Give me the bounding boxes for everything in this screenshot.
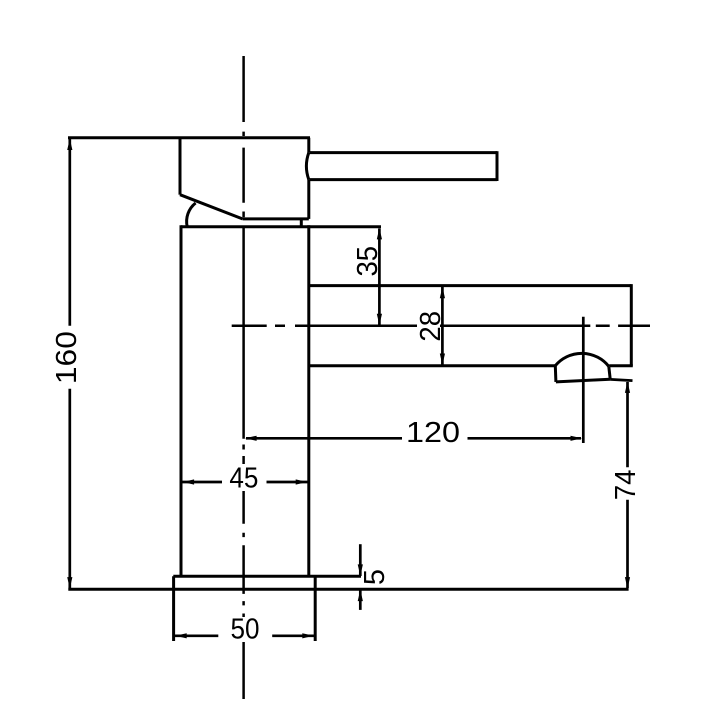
handle pivot arc <box>187 203 196 227</box>
arrow 74 down <box>625 577 630 589</box>
dimension 5 line upper <box>359 544 362 576</box>
aerator bottom edge <box>556 379 610 382</box>
text mask 28 <box>417 312 440 341</box>
aerator dome arc <box>555 353 609 366</box>
body top edge + 35 extension line <box>181 225 381 228</box>
arrow 50 right <box>302 633 314 638</box>
arrow 160 down <box>67 577 72 589</box>
dimension 28 line <box>441 287 444 365</box>
svg-text:45: 45 <box>229 463 258 495</box>
arrow 120 left <box>245 436 257 441</box>
text mask 45 <box>228 464 260 491</box>
svg-text:160: 160 <box>51 331 83 384</box>
arrow 50 left <box>175 633 187 638</box>
collar step <box>300 219 303 227</box>
dimension 74 line upper <box>626 382 629 467</box>
dimension 5 line lower <box>359 590 362 610</box>
spout bottom edge left part <box>309 364 556 367</box>
handle bottom edge <box>243 217 309 220</box>
base plate bottom line + 160 and 74 extension line <box>68 588 628 591</box>
base plate right edge + 50 extension line <box>314 576 317 641</box>
vertical centerline dash-dot <box>242 56 245 699</box>
svg-text:74: 74 <box>610 470 642 501</box>
spout right edge <box>630 284 633 366</box>
arrow 35 up <box>377 228 382 240</box>
dimension 120 line left <box>246 437 402 440</box>
handle right edge upper <box>307 138 310 153</box>
svg-text:5: 5 <box>359 569 391 585</box>
horizontal centerline dash-dot <box>232 324 650 327</box>
spout bottom edge right part <box>609 364 633 367</box>
handle diagonal edge <box>180 195 243 219</box>
dimension 120 line right <box>468 437 582 440</box>
arrow 45 left <box>183 479 195 484</box>
lever right edge <box>496 151 499 181</box>
body right edge <box>307 225 310 576</box>
lever left cap arc <box>306 153 308 180</box>
arrow 120 right <box>571 436 583 441</box>
dimension 45 line right <box>267 481 308 484</box>
svg-text:28: 28 <box>415 311 447 342</box>
arrow 28 up <box>440 287 445 299</box>
handle right edge lower <box>307 180 310 219</box>
dimension 35 line <box>378 229 381 325</box>
dimension 74 line lower <box>626 500 629 588</box>
svg-text:120: 120 <box>406 417 460 449</box>
body left edge <box>180 225 183 576</box>
text mask 50 <box>229 617 261 642</box>
aerator axis extension line for 120 <box>582 317 585 443</box>
dimension 50 line right <box>272 634 314 637</box>
dimension 50 line left <box>175 634 218 637</box>
arrow 74 up <box>625 381 630 393</box>
handle top edge + 160 extension line <box>68 136 310 139</box>
lever top edge <box>310 151 498 154</box>
spout top edge <box>309 284 632 287</box>
arrow 5 up (below plate) <box>358 590 363 602</box>
dimension 160 line lower <box>68 389 71 588</box>
lever bottom edge <box>310 178 498 181</box>
aerator bottom extension line for 74 <box>610 379 632 380</box>
arrow 45 right <box>296 479 308 484</box>
dimension 45 line left <box>183 481 223 484</box>
base plate left edge + 50 extension line <box>172 576 175 641</box>
arrow 28 down <box>440 354 445 366</box>
arrow 160 up <box>67 139 72 151</box>
handle left edge <box>179 137 182 195</box>
arrow 35 down <box>377 314 382 326</box>
aerator right edge <box>609 366 610 379</box>
svg-text:50: 50 <box>231 613 260 645</box>
dimension 160 line upper <box>68 139 71 326</box>
aerator left edge <box>554 366 558 382</box>
arrow 5 down (above plate) <box>358 564 363 576</box>
base plate top edge + 5 extension line <box>173 575 361 578</box>
svg-text:35: 35 <box>352 246 384 277</box>
